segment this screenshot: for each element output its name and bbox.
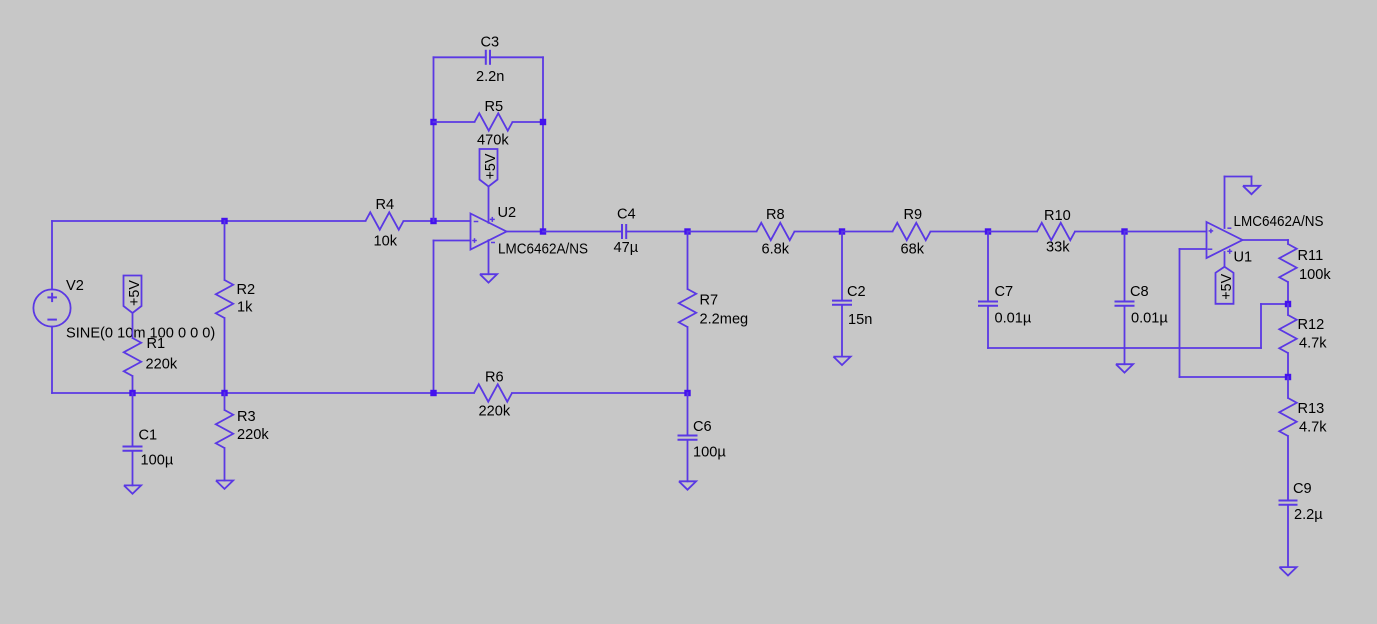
wire node to R13 xyxy=(1287,377,1289,398)
wire +5V to U2 V+ pin xyxy=(488,187,490,223)
+5V flag above R1 xyxy=(124,276,144,314)
junction bottom rail / R3 xyxy=(221,390,227,396)
wire C4 to node B xyxy=(626,231,687,233)
svg-text:C8: C8 xyxy=(1130,284,1149,300)
svg-text:47µ: 47µ xyxy=(614,240,639,256)
junction C8 node xyxy=(1121,228,1127,234)
svg-text:LMC6462A/NS: LMC6462A/NS xyxy=(1234,214,1324,230)
wire R5 right lead xyxy=(513,121,544,123)
resistor R4 10k xyxy=(366,197,404,250)
wire U1 inverting input left xyxy=(1180,248,1207,250)
svg-text:6.8k: 6.8k xyxy=(762,242,790,258)
wire node to C1 xyxy=(132,393,134,447)
wire +5V to R1 xyxy=(132,313,134,338)
junction R12/R13 node xyxy=(1285,374,1291,380)
wire R8 to C2 node xyxy=(795,231,843,233)
svg-text:U1: U1 xyxy=(1234,250,1253,266)
svg-text:220k: 220k xyxy=(479,404,511,420)
wire U2 V- pin to ground xyxy=(488,240,490,274)
svg-text:R9: R9 xyxy=(904,207,923,223)
resistor R12 4.7k xyxy=(1279,315,1327,353)
wire top rail left of R4 xyxy=(52,220,366,222)
capacitor C9 2.2µ xyxy=(1279,481,1324,523)
capacitor C7 0.01µ xyxy=(978,284,1032,327)
svg-text:R12: R12 xyxy=(1298,317,1325,333)
svg-text:100k: 100k xyxy=(1299,267,1331,283)
svg-text:0.01µ: 0.01µ xyxy=(1131,311,1168,327)
junction C7 node xyxy=(985,228,991,234)
svg-text:C6: C6 xyxy=(693,419,712,435)
svg-text:220k: 220k xyxy=(146,357,178,373)
svg-text:15n: 15n xyxy=(848,312,872,328)
wire R10 to C8 node xyxy=(1075,231,1125,233)
wire node to R12 xyxy=(1287,304,1289,315)
svg-text:100µ: 100µ xyxy=(693,445,726,461)
svg-text:R1: R1 xyxy=(147,336,166,352)
resistor R11 100k xyxy=(1279,244,1331,283)
resistor R8 6.8k xyxy=(757,207,795,258)
op-amp U1 LMC6462A/NS xyxy=(1207,214,1324,266)
wire rail to R2 xyxy=(224,221,226,280)
svg-text:R10: R10 xyxy=(1044,208,1071,224)
resistor R1 220k xyxy=(124,336,178,376)
wire U1 V- pin up xyxy=(1224,177,1226,229)
wire C6 to ground xyxy=(687,440,689,481)
resistor R9 68k xyxy=(893,207,931,258)
svg-text:0.01µ: 0.01µ xyxy=(995,311,1032,327)
capacitor C1 100µ xyxy=(123,428,174,469)
wire C8 to ground xyxy=(1124,306,1126,364)
svg-text:68k: 68k xyxy=(901,242,925,258)
wire rail to C6 xyxy=(687,393,689,436)
junction top rail / R2 xyxy=(221,218,227,224)
wire R9 to C7 node xyxy=(931,231,989,233)
svg-text:+5V: +5V xyxy=(1219,273,1235,299)
svg-text:C1: C1 xyxy=(139,428,158,444)
svg-text:2.2meg: 2.2meg xyxy=(700,312,749,328)
wire node A up left side of loop xyxy=(433,57,435,221)
wire V2 bottom to rail xyxy=(51,327,53,393)
wire R1 to bottom rail xyxy=(132,376,134,393)
svg-text:10k: 10k xyxy=(374,234,398,250)
svg-text:R2: R2 xyxy=(237,282,256,298)
ground under C1 xyxy=(124,485,141,493)
wire U1 V+ pin down xyxy=(1224,252,1226,267)
+5V flag above U2 xyxy=(480,149,500,187)
wire node to C2 xyxy=(841,232,843,301)
capacitor C3 2.2n xyxy=(476,35,504,86)
wire C9 to ground xyxy=(1287,505,1289,567)
wire node B to R8 xyxy=(688,231,757,233)
svg-text:R5: R5 xyxy=(485,99,504,115)
wire R13 to C9 xyxy=(1287,436,1289,501)
svg-text:SINE(0 10m 100 0 0 0): SINE(0 10m 100 0 0 0) xyxy=(66,326,215,342)
wire node B to R7 xyxy=(687,232,689,290)
+5V flag below U1 xyxy=(1216,267,1236,304)
junction R4 output node xyxy=(430,218,436,224)
wire rail to R3 xyxy=(224,393,226,410)
wire V- to ground corner xyxy=(1225,176,1252,178)
svg-text:100µ: 100µ xyxy=(141,453,174,469)
svg-text:2.2µ: 2.2µ xyxy=(1294,507,1323,523)
junction C2 node xyxy=(839,228,845,234)
svg-text:+5V: +5V xyxy=(127,280,143,306)
ground under C6 xyxy=(679,481,696,489)
wire ground stem xyxy=(1251,177,1253,186)
junction U2 output node xyxy=(540,228,546,234)
wire node to C7 xyxy=(987,232,989,302)
resistor R10 33k xyxy=(1037,208,1075,256)
resistor R5 470k xyxy=(475,99,513,149)
resistor R3 220k xyxy=(216,409,270,448)
svg-text:1k: 1k xyxy=(237,300,253,316)
junction R5 left xyxy=(430,119,436,125)
svg-text:R8: R8 xyxy=(766,207,785,223)
svg-text:C7: C7 xyxy=(995,284,1014,300)
wire R6 to C6 node xyxy=(512,392,688,394)
svg-text:V2: V2 xyxy=(66,278,84,294)
wire C3 top right xyxy=(490,56,543,58)
svg-text:R11: R11 xyxy=(1298,248,1324,264)
junction R11/R12 node xyxy=(1285,301,1291,307)
svg-text:+5V: +5V xyxy=(483,153,499,179)
wire R7 to bottom rail xyxy=(687,327,689,393)
wire R5 left lead xyxy=(434,121,475,123)
wire noninverting down to R6 rail xyxy=(433,241,435,394)
wire C7 down xyxy=(987,306,989,348)
svg-text:2.2n: 2.2n xyxy=(476,69,504,85)
capacitor C8 0.01µ xyxy=(1115,284,1169,327)
wire feedback up xyxy=(1260,304,1262,348)
junction R5 right xyxy=(540,119,546,125)
svg-text:C2: C2 xyxy=(847,284,866,300)
wire R4 to U2 inverting input xyxy=(404,220,471,222)
wire C3 top left xyxy=(434,56,486,58)
wire V2 top to rail xyxy=(51,221,53,289)
wire U2 output xyxy=(507,231,544,233)
svg-text:470k: 470k xyxy=(477,133,509,149)
wire C7 node to R10 xyxy=(988,231,1037,233)
junction node B C4/R7/R8 xyxy=(684,228,690,234)
wire U2 noninverting input xyxy=(434,240,471,242)
svg-text:C9: C9 xyxy=(1293,481,1312,497)
svg-text:220k: 220k xyxy=(237,427,269,443)
svg-text:C4: C4 xyxy=(617,207,636,223)
svg-text:R6: R6 xyxy=(485,370,504,386)
wire C7 feedback horizontal xyxy=(988,347,1261,349)
wire loop right side down xyxy=(542,57,544,231)
resistor R6 220k xyxy=(474,370,512,420)
junction R1/C1 node xyxy=(129,390,135,396)
resistor R13 4.7k xyxy=(1279,398,1327,436)
svg-text:R3: R3 xyxy=(237,409,256,425)
capacitor C6 100µ xyxy=(678,419,727,461)
voltage source V2 xyxy=(33,278,83,327)
svg-text:R4: R4 xyxy=(376,197,395,213)
capacitor C2 15n xyxy=(832,284,872,328)
ground under C2 xyxy=(833,357,850,365)
junction bottom rail / C6 xyxy=(684,390,690,396)
wire output to C4 xyxy=(543,231,622,233)
wire inverting feedback down xyxy=(1179,249,1181,377)
svg-text:R7: R7 xyxy=(700,293,719,309)
svg-text:33k: 33k xyxy=(1046,240,1070,256)
wire C2 node to R9 xyxy=(842,231,893,233)
wire R3 to ground xyxy=(224,448,226,481)
wire R2 to bottom rail xyxy=(224,318,226,393)
svg-text:C3: C3 xyxy=(481,35,500,51)
junction R6 rail / U2 + input xyxy=(430,390,436,396)
wire U1 output xyxy=(1243,239,1289,241)
wire C2 to ground xyxy=(841,305,843,357)
op-amp U2 LMC6462A/NS xyxy=(471,205,589,258)
ground above U1 xyxy=(1243,186,1260,194)
ground under C9 xyxy=(1279,567,1296,575)
capacitor C4 47µ xyxy=(614,207,639,257)
svg-text:LMC6462A/NS: LMC6462A/NS xyxy=(498,242,588,258)
wire C8 node to U1 + input xyxy=(1125,231,1207,233)
wire R11 to node xyxy=(1287,282,1289,304)
wire C1 to ground xyxy=(132,451,134,486)
wire bottom rail left of R6 xyxy=(52,392,474,394)
resistor R7 2.2meg xyxy=(679,289,748,328)
ground under U2 xyxy=(480,274,497,282)
wire output corner down xyxy=(1287,240,1289,244)
wire feedback to R11/R12 node xyxy=(1261,303,1288,305)
ground under R3 xyxy=(216,481,233,489)
svg-text:4.7k: 4.7k xyxy=(1299,336,1327,352)
resistor R2 1k xyxy=(216,280,255,318)
wire node to C8 xyxy=(1124,232,1126,302)
wire inverting feedback to R12/R13 node xyxy=(1180,376,1289,378)
wire R12 to node xyxy=(1287,353,1289,377)
svg-text:4.7k: 4.7k xyxy=(1299,420,1327,436)
svg-text:U2: U2 xyxy=(498,205,517,221)
ground under C8 xyxy=(1116,364,1133,372)
svg-text:R13: R13 xyxy=(1298,401,1325,417)
